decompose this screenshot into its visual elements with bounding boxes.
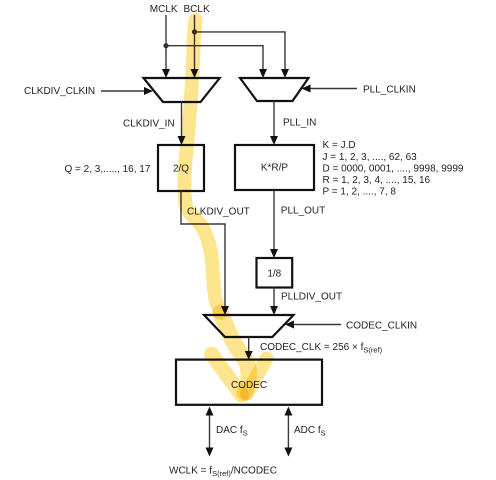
svg-text:PLL_IN: PLL_IN <box>283 118 316 129</box>
svg-text:Q = 2, 3,....., 16, 17: Q = 2, 3,....., 16, 17 <box>65 164 151 175</box>
wire PLLDIV_OUT <box>273 288 275 307</box>
highlight marker stroke lower <box>221 313 249 393</box>
svg-text:CLKDIV_CLKIN: CLKDIV_CLKIN <box>24 86 95 97</box>
svg-text:K = J.D: K = J.D <box>323 140 356 151</box>
highlight arrowhead right wing <box>247 359 267 394</box>
junction BCLK <box>192 29 197 34</box>
mux M2 PLL input mux <box>240 78 309 101</box>
junction MCLK <box>163 43 168 48</box>
wire CLKDIV_CLKIN <box>101 90 145 92</box>
svg-text:PLL_OUT: PLL_OUT <box>281 206 325 217</box>
wire PLL_OUT <box>273 190 275 250</box>
highlight marker stroke <box>184 20 220 313</box>
mux M1 CLKDIV input mux <box>144 78 220 102</box>
wire MCLK vertical <box>165 15 167 70</box>
svg-text:CODEC_CLKIN: CODEC_CLKIN <box>346 321 417 332</box>
svg-text:K*R/P: K*R/P <box>261 163 289 174</box>
svg-text:D = 0000, 0001, ...., 9998, 99: D = 0000, 0001, ...., 9998, 9999 <box>323 163 464 174</box>
divider 1/8 <box>257 258 293 288</box>
wire PLL_IN <box>273 101 275 137</box>
wire MCLK branch to PLL mux <box>166 46 263 70</box>
svg-text:PLLDIV_OUT: PLLDIV_OUT <box>281 292 342 303</box>
block CODEC <box>176 360 322 405</box>
highlight arrowhead left wing <box>212 354 242 395</box>
svg-text:PLL_CLKIN: PLL_CLKIN <box>363 85 416 96</box>
wire DAC fS double arrow <box>209 412 211 451</box>
wire CODEC_CLKIN <box>294 324 341 326</box>
wire BCLK vertical <box>194 15 196 70</box>
svg-text:P = 1, 2, ...., 7, 8: P = 1, 2, ...., 7, 8 <box>323 187 397 198</box>
wire CLKDIV_IN <box>181 102 183 137</box>
svg-text:CLKDIV_IN: CLKDIV_IN <box>123 119 175 130</box>
svg-text:J = 1, 2, 3, ...., 62, 63: J = 1, 2, 3, ...., 62, 63 <box>323 152 418 163</box>
svg-text:1/8: 1/8 <box>267 269 281 280</box>
svg-text:R = 1, 2, 3, 4, ...., 15, 16: R = 1, 2, 3, 4, ...., 15, 16 <box>323 175 431 186</box>
wire ADC fS double arrow <box>287 412 289 451</box>
mux M3 codec clock mux <box>204 315 294 337</box>
wire CLKDIV_OUT <box>181 191 225 307</box>
divider 2/Q <box>158 145 204 191</box>
PLL multiplier K*R/P <box>235 145 314 190</box>
svg-text:MCLK: MCLK <box>150 4 178 15</box>
wire BCLK branch to PLL mux <box>195 32 286 70</box>
wire CODEC_CLK <box>248 337 250 352</box>
wire PLL_CLKIN <box>310 88 357 90</box>
